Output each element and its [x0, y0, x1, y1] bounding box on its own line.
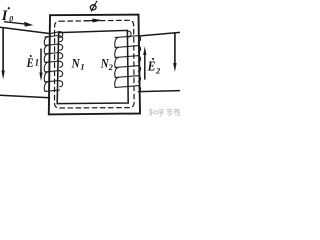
winding N1: [44, 32, 62, 92]
winding N1 turn 7 rung: [45, 90, 60, 91]
winding N1 turn 3 rung: [45, 53, 60, 54]
current i0 arrow: [5, 22, 34, 27]
winding N1 turn 4 rung: [45, 61, 60, 62]
winding N1 turn 1 right loop: [60, 36, 63, 42]
winding N2: [115, 36, 141, 92]
winding N2 turn 1 left loop: [115, 37, 119, 47]
winding N1 turn 5 left loop: [44, 72, 48, 82]
winding N2 turn 3 right loop: [138, 56, 140, 62]
winding N1 turn 2 right loop: [60, 44, 63, 50]
label E2: [147, 58, 161, 76]
winding N2 turn 2 left loop: [115, 47, 119, 57]
winding N1 turn 6 left loop: [44, 82, 48, 91]
winding N2 turn 2 rung: [115, 46, 138, 48]
winding N1 turn 2 rung: [45, 44, 60, 45]
label flux Phi: [90, 1, 98, 11]
svg-text:2: 2: [108, 62, 114, 72]
winding N2 turn 5 rung: [115, 76, 138, 78]
svg-text:1: 1: [35, 58, 40, 68]
winding N1 turn 3 right loop: [60, 53, 63, 59]
winding N2 turn 1 right loop: [138, 36, 140, 42]
winding N1 turn 5 rung: [45, 71, 60, 72]
flux arrow: [84, 19, 103, 23]
winding N2 top connection hook: [129, 31, 132, 37]
wire bottom-left primary lead: [0, 95, 50, 98]
primary voltage arrow (left): [1, 28, 4, 79]
winding N2 turn 5 left loop: [115, 77, 119, 87]
emf E2 arrow: [143, 46, 146, 79]
svg-text:E: E: [26, 55, 34, 70]
svg-text:0: 0: [9, 15, 13, 24]
winding N2 turn 4 left loop: [115, 67, 119, 77]
winding N1 turn 1 left loop: [44, 37, 48, 45]
watermark: [149, 108, 180, 116]
winding N2 turn 6 rung: [115, 86, 138, 88]
svg-text:N: N: [71, 56, 80, 71]
winding N1 turn 1 rung: [45, 36, 60, 37]
svg-text:1: 1: [80, 62, 84, 72]
label E1: [26, 55, 39, 70]
winding N2 turn 5 right loop: [138, 76, 140, 82]
winding N2 turn 4 rung: [115, 66, 138, 68]
winding N2 turn 2 right loop: [138, 46, 140, 52]
winding N1 turn 4 right loop: [60, 61, 63, 67]
winding N2 turn 4 right loop: [138, 66, 140, 72]
label N1: [71, 56, 85, 72]
emf E1 arrow: [39, 49, 42, 81]
winding N1 turn 6 rung: [45, 81, 60, 82]
core outer rectangle: [49, 15, 140, 115]
winding N1 turn 6 right loop: [60, 81, 63, 87]
label I0: [1, 7, 14, 24]
svg-text:2: 2: [155, 65, 161, 75]
core inner rectangle: [57, 30, 128, 103]
winding N2 turn 3 left loop: [115, 57, 119, 67]
winding N1 turn 2 left loop: [44, 45, 48, 53]
flux dashed loop: [54, 20, 134, 108]
wire top-left primary lead: [0, 27, 50, 33]
winding N2 turn 3 rung: [115, 56, 138, 58]
winding N1 turn 4 left loop: [44, 62, 48, 71]
secondary voltage arrow (right): [173, 33, 176, 72]
label N2: [100, 57, 114, 73]
winding N1 turn 3 left loop: [44, 54, 48, 62]
winding N1 top hook: [50, 32, 63, 38]
winding N1 turn 5 right loop: [60, 71, 63, 77]
wire bottom-right secondary lead: [139, 91, 181, 92]
wire top-right secondary lead: [139, 32, 180, 36]
winding N2 turn 1 rung: [115, 36, 138, 38]
svg-text:E: E: [147, 59, 156, 74]
winding N2 turn 6 right loop: [138, 86, 140, 92]
